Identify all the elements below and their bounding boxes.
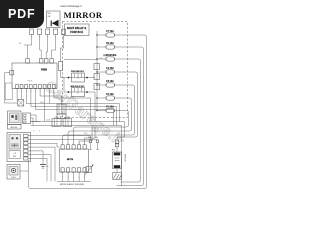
wire U1 pin1 down xyxy=(16,89,18,101)
svg-text:G2: G2 xyxy=(46,166,49,168)
svg-text:6: 6 xyxy=(40,91,41,93)
svg-text:3: 3 xyxy=(26,91,27,93)
svg-text:4: 4 xyxy=(79,177,80,179)
thermistor RT1 xyxy=(86,167,92,173)
wire S2 w3 xyxy=(28,143,60,147)
svg-text:MIRROR: MIRROR xyxy=(123,154,125,162)
svg-text:P08N: P08N xyxy=(41,70,47,72)
wire S2 w1 to B5 xyxy=(28,136,91,140)
svg-text:MAIN RELAY &: MAIN RELAY & xyxy=(67,27,87,30)
wire to ground xyxy=(116,169,118,173)
svg-text:PWR MIR RLY: PWR MIR RLY xyxy=(71,71,85,73)
svg-text:M5 7M: M5 7M xyxy=(67,159,74,161)
wire S2 w5 to ground xyxy=(28,151,43,165)
svg-text:A21: A21 xyxy=(60,116,63,119)
stub connector CS1 xyxy=(94,64,100,70)
wire U1 left pin xyxy=(5,73,18,103)
svg-text:2: 2 xyxy=(39,37,40,39)
svg-text:MIRROR: MIRROR xyxy=(64,10,103,20)
svg-text:F1 10A: F1 10A xyxy=(106,105,114,108)
wire S1 w2 xyxy=(31,118,34,126)
bus wire 7 xyxy=(74,114,129,145)
S2 pin column xyxy=(24,134,29,137)
svg-text:(+)BCM 30A: (+)BCM 30A xyxy=(104,54,117,57)
S2 pictogram box xyxy=(9,135,21,150)
ground G2 xyxy=(40,165,46,169)
wire C1 pin2 xyxy=(40,34,42,58)
connector C6 xyxy=(115,140,118,143)
svg-text:F7 10A: F7 10A xyxy=(106,30,114,33)
bus wire 3 xyxy=(121,62,141,182)
svg-text:1: 1 xyxy=(62,143,63,145)
wire fuse F7 to bus xyxy=(114,35,146,38)
svg-text:MIRROR ASSY (DRIVER): MIRROR ASSY (DRIVER) xyxy=(60,183,85,186)
label box MAIN RELAY & FUSE BOX xyxy=(65,24,90,36)
connector box C2 xyxy=(57,104,66,114)
stub connector CS2 xyxy=(94,74,100,80)
M1 top pins xyxy=(61,145,64,149)
component D1 xyxy=(59,62,63,71)
bus wire 2 xyxy=(117,50,144,186)
svg-text:0.85L: 0.85L xyxy=(40,102,44,104)
wire S2 w2 to B6 xyxy=(28,139,98,142)
ground hatched box xyxy=(113,173,121,180)
svg-text:FUSE BOX: FUSE BOX xyxy=(70,31,83,34)
wire M1 pin5 up xyxy=(85,127,95,145)
bus wire 5 xyxy=(63,88,135,145)
wire long bus B xyxy=(31,126,122,187)
svg-text:4: 4 xyxy=(79,143,80,145)
svg-text:5: 5 xyxy=(84,177,85,179)
svg-text:F3 15A: F3 15A xyxy=(106,80,114,83)
svg-text:MIR SEL: MIR SEL xyxy=(11,127,18,129)
PDF badge overlay xyxy=(0,0,44,28)
svg-text:1: 1 xyxy=(17,91,18,93)
wire S3 out xyxy=(20,170,29,172)
watermark CarGarage.ir xyxy=(42,78,128,150)
wire U1 pin6 to connector box xyxy=(40,89,61,105)
wire U1 pin2 down xyxy=(21,89,23,100)
connector C1 pins xyxy=(30,29,34,34)
dashed enclosure MAIN RELAY & FUSE BOX xyxy=(63,22,128,118)
mirror assy M1 body xyxy=(60,149,89,172)
wire feed to relay area xyxy=(64,59,97,61)
mirror icon glyph xyxy=(52,20,59,27)
svg-text:P5.05: P5.05 xyxy=(28,81,33,83)
feed wire vertical xyxy=(96,31,98,111)
svg-text:5: 5 xyxy=(84,143,85,145)
svg-text:1.25B: 1.25B xyxy=(46,120,50,122)
left narrow box xyxy=(5,83,12,100)
wire S1 w1 xyxy=(31,115,37,122)
stub label xyxy=(24,44,28,46)
wire U1 pin9 xyxy=(54,89,91,122)
connector X-box xyxy=(18,100,24,107)
wire C1 pin3 xyxy=(46,34,47,58)
wire fuse F6 to bus xyxy=(114,47,143,50)
bus wire 6 xyxy=(68,101,132,145)
wire bus under M1 xyxy=(57,181,91,183)
switch S1 label box xyxy=(8,125,22,130)
mirror switch S2 body xyxy=(7,133,31,162)
wire bus mid3 xyxy=(36,89,114,126)
switch S3 box xyxy=(7,165,20,180)
wire bus mid1 xyxy=(26,89,119,122)
wire U1 pin8 down xyxy=(48,89,50,104)
svg-text:F2 10A: F2 10A xyxy=(106,93,114,96)
wire S2 w4 xyxy=(28,147,55,181)
svg-text:2: 2 xyxy=(68,143,69,145)
svg-text:3: 3 xyxy=(73,177,74,179)
wire chain xyxy=(116,147,118,152)
wire S1 w3 xyxy=(31,121,41,123)
wire long bus A xyxy=(31,122,125,138)
wire fuse F1 to bus xyxy=(114,111,128,114)
svg-text:2.0W: 2.0W xyxy=(99,58,103,60)
wire bus mid2 xyxy=(31,89,117,126)
svg-text:SW: SW xyxy=(48,16,51,18)
wire fuse F3 to bus xyxy=(114,85,134,88)
wire C1 pin5 to diode D1 xyxy=(61,34,64,61)
mirror motor M2 xyxy=(113,152,122,169)
svg-text:3: 3 xyxy=(47,37,48,39)
stub connector CS3 xyxy=(94,84,100,90)
svg-text:1: 1 xyxy=(62,177,63,179)
connector C5 xyxy=(23,113,31,124)
wire C1 pin1 to module xyxy=(28,34,32,45)
U1 left pin xyxy=(10,71,14,75)
U1 top pins xyxy=(26,59,30,64)
svg-text:4: 4 xyxy=(55,37,56,39)
control module U1 body xyxy=(12,63,57,89)
wire S2 w6 xyxy=(28,155,51,182)
svg-text:1: 1 xyxy=(31,37,32,39)
switch S1 icon box xyxy=(8,111,22,125)
svg-text:3: 3 xyxy=(73,143,74,145)
U1 bottom pins xyxy=(16,85,19,89)
bus wire 1 (outermost) xyxy=(29,38,147,189)
svg-text:5: 5 xyxy=(63,37,64,39)
mirror switch icon box xyxy=(47,11,61,28)
wire fuse F5 to bus xyxy=(114,59,140,62)
svg-text:B13: B13 xyxy=(112,150,115,152)
M1 bottom pins xyxy=(61,168,64,172)
wire M1 pin4 up xyxy=(79,127,92,145)
wire C1 pin4 xyxy=(52,34,56,58)
svg-text:2: 2 xyxy=(68,177,69,179)
wire K2 right down xyxy=(94,92,96,122)
svg-text:F4 15A: F4 15A xyxy=(106,67,114,70)
svg-text:FOLD: FOLD xyxy=(11,177,16,179)
svg-text:F6 10A: F6 10A xyxy=(106,42,114,45)
svg-text:8: 8 xyxy=(49,91,50,93)
wire U1 pin7 down xyxy=(44,89,46,122)
bus wire 4 xyxy=(117,75,138,140)
S2 text box xyxy=(9,151,21,159)
wire fuse F2 to bus xyxy=(114,98,131,101)
svg-text:www.CarGarage.ir: www.CarGarage.ir xyxy=(60,4,81,8)
wire S2 w7 xyxy=(28,158,47,181)
wire K1 K2 left link xyxy=(63,78,65,93)
wire fuse F4 to bus xyxy=(114,72,137,75)
